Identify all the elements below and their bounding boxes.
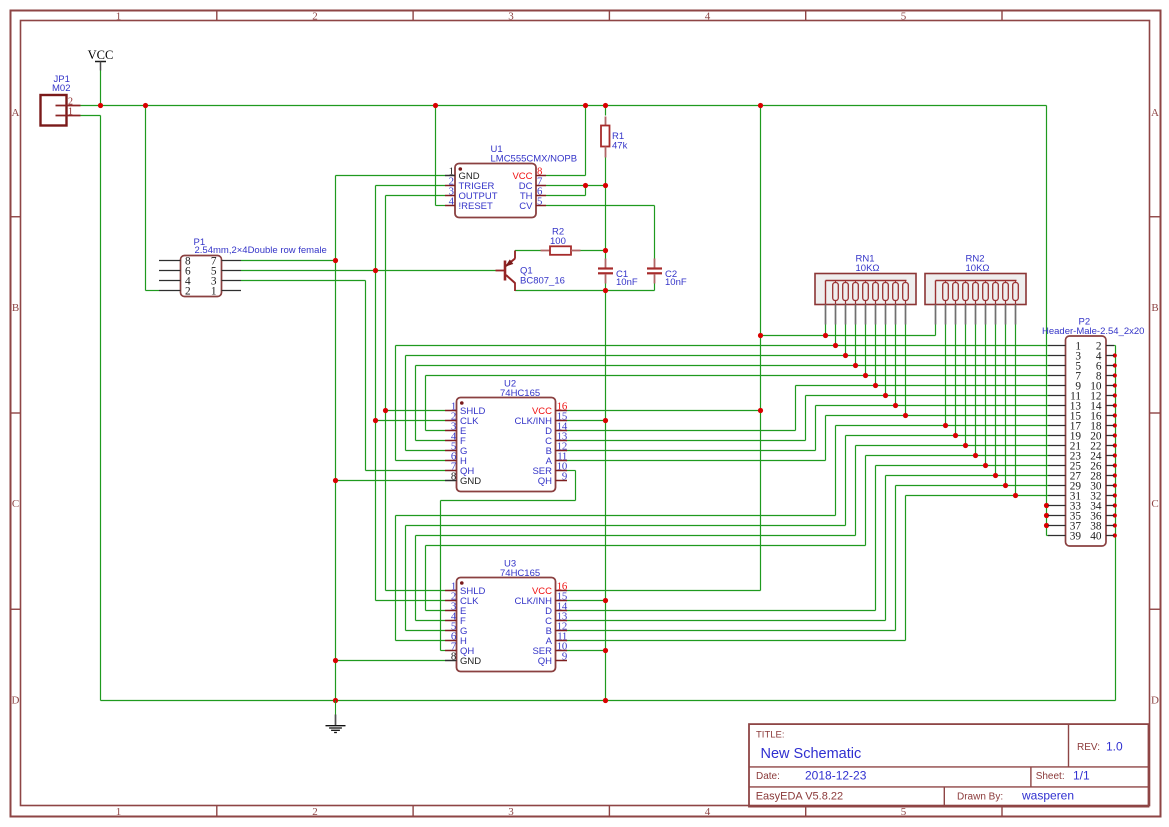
junction dots RN2 outputs xyxy=(943,423,1018,498)
U2 pin 10 SER xyxy=(532,461,567,478)
wire VCC to U1 RESET xyxy=(436,106,446,206)
wire U3 B to P2 row15 xyxy=(566,486,1048,631)
svg-text:10KΩ: 10KΩ xyxy=(856,263,880,274)
U1 pin 1 GND xyxy=(445,165,480,182)
shift register U2 74HC165 xyxy=(457,398,556,492)
title block EasyEDA version xyxy=(756,791,843,803)
svg-text:VCC: VCC xyxy=(88,48,114,62)
U2 pin 1 SHLD xyxy=(445,401,485,418)
svg-text:3: 3 xyxy=(508,806,514,818)
wire U3 CLKINH pin xyxy=(566,600,606,602)
U3 pin 16 VCC xyxy=(532,581,568,598)
title block Sheet label xyxy=(1036,771,1065,782)
label RN1 value 10K xyxy=(856,263,880,274)
svg-text:QH: QH xyxy=(538,476,552,487)
U3 pin 2 CLK xyxy=(445,591,479,608)
svg-text:LMC555CMX/NOPB: LMC555CMX/NOPB xyxy=(491,154,578,165)
svg-text:1/1: 1/1 xyxy=(1073,769,1090,783)
U2 pin 4 F xyxy=(445,431,466,448)
label U3 value 74HC165 xyxy=(500,568,540,579)
wire U3 SER pin xyxy=(566,650,606,652)
U3 pin 8 GND xyxy=(445,651,481,668)
svg-text:1.0: 1.0 xyxy=(1106,740,1123,754)
label Q1 value BC807_16 xyxy=(520,276,565,287)
label R1 refdes xyxy=(612,131,624,142)
svg-text:3: 3 xyxy=(508,11,514,23)
svg-text:10nF: 10nF xyxy=(616,277,638,288)
svg-text:8: 8 xyxy=(451,651,456,663)
U3 pin 11 A xyxy=(546,631,567,648)
wire U2 F to P2 row3 xyxy=(416,366,1049,441)
title block TITLE label xyxy=(756,730,785,741)
U2 pin 6 H xyxy=(445,451,467,468)
svg-text:2018-12-23: 2018-12-23 xyxy=(805,769,867,783)
wire GND bottom bus xyxy=(101,700,1116,702)
op-amp U1 LMC555 body xyxy=(455,164,536,218)
title block rev value 1.0 xyxy=(1106,740,1123,754)
U2 pin 2 CLK xyxy=(445,411,479,428)
label C1 value 10nF xyxy=(616,277,638,288)
svg-text:Sheet:: Sheet: xyxy=(1036,771,1065,782)
U1 pin 3 OUTPUT xyxy=(445,185,498,202)
U3 pin 5 G xyxy=(445,621,467,638)
wire VCC to P1 pin2 xyxy=(146,106,160,291)
transistor Q1 xyxy=(496,251,516,292)
svg-text:10nF: 10nF xyxy=(665,277,687,288)
U1 pin 8 VCC xyxy=(512,165,546,182)
svg-text:B: B xyxy=(12,302,19,314)
U3 pin 14 D xyxy=(545,601,568,618)
wire U3 GND pin xyxy=(336,660,446,662)
wire U2 CLKINH pin xyxy=(566,420,606,422)
wire U2 GND pin xyxy=(336,480,446,482)
connector P2 Header-Male-2.54_2x20 xyxy=(1048,336,1114,546)
svg-text:wasperen: wasperen xyxy=(1021,789,1074,803)
wire RN2 pin leads xyxy=(936,325,1016,496)
svg-text:D: D xyxy=(12,695,20,707)
title block sheet value 1/1 xyxy=(1073,769,1090,783)
svg-text:1: 1 xyxy=(68,107,73,118)
label C1 refdes xyxy=(616,269,628,280)
svg-text:1: 1 xyxy=(116,11,122,23)
label C2 refdes xyxy=(665,269,677,280)
svg-text:REV:: REV: xyxy=(1077,742,1100,753)
U1 pin 4 RESET xyxy=(445,195,493,212)
svg-text:BC807_16: BC807_16 xyxy=(520,276,565,287)
U2 pin 15 CLK/INH xyxy=(515,411,567,428)
U2 pin 12 B xyxy=(546,441,567,458)
wire U3 A to P2 row16 xyxy=(566,496,1048,641)
svg-text:4: 4 xyxy=(705,11,711,23)
wire U1 OUTPUT net xyxy=(386,196,446,591)
connector JP1 xyxy=(41,95,81,126)
wire U2 C to P2 row6 xyxy=(566,396,1048,441)
wire U1 TRIGER net xyxy=(376,186,446,601)
label P1 value xyxy=(195,245,327,256)
svg-text:10KΩ: 10KΩ xyxy=(966,263,990,274)
svg-text:TITLE:: TITLE: xyxy=(756,730,785,741)
U2 pin 14 D xyxy=(545,421,568,438)
U2 pin 3 E xyxy=(445,421,466,438)
wire GND from JP1 pin1 xyxy=(81,116,101,701)
wire U2 G to P2 row2 xyxy=(406,356,1049,451)
svg-text:EasyEDA V5.8.22: EasyEDA V5.8.22 xyxy=(756,791,843,803)
svg-text:C: C xyxy=(12,498,19,510)
power flag VCC xyxy=(88,48,114,71)
label RN1 refdes xyxy=(856,254,875,265)
svg-text:Header-Male-2.54_2x20: Header-Male-2.54_2x20 xyxy=(1042,326,1144,337)
wire VCC riser to RN and U2 U3 xyxy=(566,106,936,591)
svg-text:GND: GND xyxy=(460,656,481,667)
U2 pin 11 A xyxy=(546,451,567,468)
U3 pin 1 SHLD xyxy=(445,581,485,598)
svg-text:40: 40 xyxy=(1090,530,1102,542)
wire P2 row18 stub xyxy=(1047,515,1049,517)
svg-text:!RESET: !RESET xyxy=(459,201,494,212)
label RN2 refdes xyxy=(966,254,985,265)
U3 pin 12 B xyxy=(546,621,567,638)
wire U1 TH pin xyxy=(546,186,586,196)
svg-text:2: 2 xyxy=(312,806,318,818)
U2 pin 9 QH xyxy=(538,471,567,488)
svg-text:D: D xyxy=(1151,695,1159,707)
junction dots timing node x605 xyxy=(603,183,608,703)
svg-text:5: 5 xyxy=(537,195,542,207)
label P1 refdes xyxy=(194,237,206,248)
wire U3 G to P2 row10 xyxy=(406,436,1049,631)
junction dots TRIGER net xyxy=(373,268,378,423)
junction dot TH-DC xyxy=(583,183,588,188)
label U2 refdes xyxy=(504,379,516,390)
title block date value xyxy=(805,769,867,783)
label P2 refdes xyxy=(1079,317,1091,328)
label C2 value 10nF xyxy=(665,277,687,288)
svg-text:2.54mm,2×4Double row female: 2.54mm,2×4Double row female xyxy=(195,245,327,256)
title block Drawn By label xyxy=(957,792,1003,803)
svg-text:5: 5 xyxy=(901,11,907,23)
wire U1 VCC pin to bus xyxy=(546,106,586,176)
wire U3 E to P2 row12 xyxy=(426,456,1049,611)
U2 pin 5 G xyxy=(445,441,467,458)
svg-text:39: 39 xyxy=(1070,530,1082,542)
junction dot OUTPUT net xyxy=(383,408,388,413)
svg-text:8: 8 xyxy=(451,471,456,483)
svg-text:C: C xyxy=(1151,498,1158,510)
U1 pin 2 TRIGER xyxy=(445,175,495,192)
svg-text:Drawn By:: Drawn By: xyxy=(957,792,1003,803)
wire U2 A to P2 row8 xyxy=(566,416,1048,461)
resistor network RN2 xyxy=(925,274,1026,325)
label U1 refdes xyxy=(491,144,503,155)
label RN2 value 10K xyxy=(966,263,990,274)
svg-text:2: 2 xyxy=(185,285,191,297)
U3 pin 4 F xyxy=(445,611,466,628)
svg-text:QH: QH xyxy=(538,656,552,667)
wire U2 SER to U3 QH xyxy=(441,471,576,651)
wire timing node vertical x605 xyxy=(605,106,607,701)
U3 pin 13 C xyxy=(545,611,567,628)
label U1 value xyxy=(491,154,578,165)
wire emitter bus y290 xyxy=(515,290,655,292)
svg-text:CV: CV xyxy=(519,201,533,212)
label U3 refdes xyxy=(504,559,516,570)
junction dots VCC riser x760 xyxy=(758,333,763,413)
junction dot RN1 common xyxy=(823,333,828,338)
svg-text:M02: M02 xyxy=(52,83,70,94)
U1 pin 6 TH xyxy=(520,185,546,202)
svg-text:74HC165: 74HC165 xyxy=(500,388,540,399)
wire U2 H to P2 row1 xyxy=(396,346,1049,461)
wire U2 D to P2 row5 xyxy=(566,386,1048,431)
junction dots P2 even pins xyxy=(1113,353,1117,537)
label Q1 refdes xyxy=(520,266,533,277)
wire U3 C to P2 row14 xyxy=(566,476,1048,621)
U3 pin 9 QH xyxy=(538,651,567,668)
label R2 refdes xyxy=(552,227,564,238)
svg-text:100: 100 xyxy=(550,236,566,247)
wire C2 bottom xyxy=(654,284,656,291)
label R1 value 47k xyxy=(612,140,628,151)
junction dots VCC bus xyxy=(98,103,763,108)
wire P2 even pins to GND xyxy=(1114,346,1116,701)
resistor R1 xyxy=(601,117,610,158)
svg-text:1: 1 xyxy=(211,285,217,297)
svg-text:5: 5 xyxy=(901,806,907,818)
resistor network RN1 xyxy=(815,274,916,325)
U3 pin 6 H xyxy=(445,631,467,648)
wire P1 pin3 to U2 QH xyxy=(241,281,445,471)
junction dots RN1 outputs xyxy=(833,343,908,418)
wire P2 row17 stub xyxy=(1047,505,1049,507)
label JP1 value M02 xyxy=(52,83,70,94)
wire R2 to timing node xyxy=(581,250,606,252)
svg-text:4: 4 xyxy=(705,806,711,818)
capacitor C2 xyxy=(647,259,662,284)
svg-text:47k: 47k xyxy=(612,140,628,151)
U1 pin 7 DC xyxy=(519,175,546,192)
label P2 value xyxy=(1042,326,1144,337)
label R2 value 100 xyxy=(550,236,566,247)
svg-text:4: 4 xyxy=(449,195,455,207)
svg-text:New Schematic: New Schematic xyxy=(761,746,862,762)
svg-text:GND: GND xyxy=(460,476,481,487)
junction dots GND x335 xyxy=(333,258,338,703)
U3 pin 10 SER xyxy=(532,641,567,658)
svg-text:Date:: Date: xyxy=(756,771,780,782)
shift register U3 74HC165 xyxy=(457,578,556,672)
U3 pin 15 CLK/INH xyxy=(515,591,567,608)
title block Date label xyxy=(756,771,780,782)
label U2 value 74HC165 xyxy=(500,388,540,399)
wire U2 E to P2 row4 xyxy=(426,376,1049,431)
ground symbol xyxy=(326,701,346,733)
wire U3 H to P2 row9 xyxy=(396,426,1049,641)
wire U1 GND pin xyxy=(336,175,446,177)
U3 pin 7 QH xyxy=(445,641,474,658)
wire P1 pin5 to Q1 base xyxy=(241,270,496,272)
capacitor C1 xyxy=(598,259,613,284)
resistor R2 xyxy=(541,246,581,255)
wire RN1 pin leads xyxy=(826,325,906,416)
wire U1 DC pin xyxy=(546,185,606,187)
svg-text:A: A xyxy=(1151,107,1159,119)
U2 pin 7 QH xyxy=(445,461,474,478)
wire U2 VCC pin to riser xyxy=(566,410,761,412)
svg-text:A: A xyxy=(12,107,20,119)
U2 pin 8 GND xyxy=(445,471,481,488)
wire U3 D to P2 row13 xyxy=(566,466,1048,611)
svg-text:9: 9 xyxy=(562,471,567,483)
title block title text New Schematic xyxy=(761,746,862,762)
wire VCC symbol stem xyxy=(100,71,102,106)
junction dots VCC riser x1046 xyxy=(1044,503,1049,528)
svg-text:74HC165: 74HC165 xyxy=(500,568,540,579)
U1 pin 5 CV xyxy=(519,195,546,212)
U2 pin 13 C xyxy=(545,431,567,448)
wire Q1 collector to R2 xyxy=(515,251,541,259)
U3 pin 3 E xyxy=(445,601,466,618)
wire VCC bus xyxy=(81,106,1049,536)
connector P1 xyxy=(159,255,241,297)
svg-text:2: 2 xyxy=(312,11,318,23)
U2 pin 16 VCC xyxy=(532,401,568,418)
wire GND vertical x335 xyxy=(335,176,337,701)
svg-text:B: B xyxy=(1151,302,1158,314)
label JP1 refdes xyxy=(54,74,70,85)
wire P2 row19 stub xyxy=(1047,525,1049,527)
title block REV label xyxy=(1077,742,1100,753)
wire P1 pin7 to GND xyxy=(241,260,336,262)
svg-text:9: 9 xyxy=(562,651,567,663)
wire U3 F to P2 row11 xyxy=(416,446,1049,621)
svg-text:1: 1 xyxy=(116,806,122,818)
wire U1 CV to C2 xyxy=(546,206,655,259)
title block author wasperen xyxy=(1021,789,1074,803)
wire U2 B to P2 row7 xyxy=(566,406,1048,451)
title block xyxy=(749,724,1149,807)
